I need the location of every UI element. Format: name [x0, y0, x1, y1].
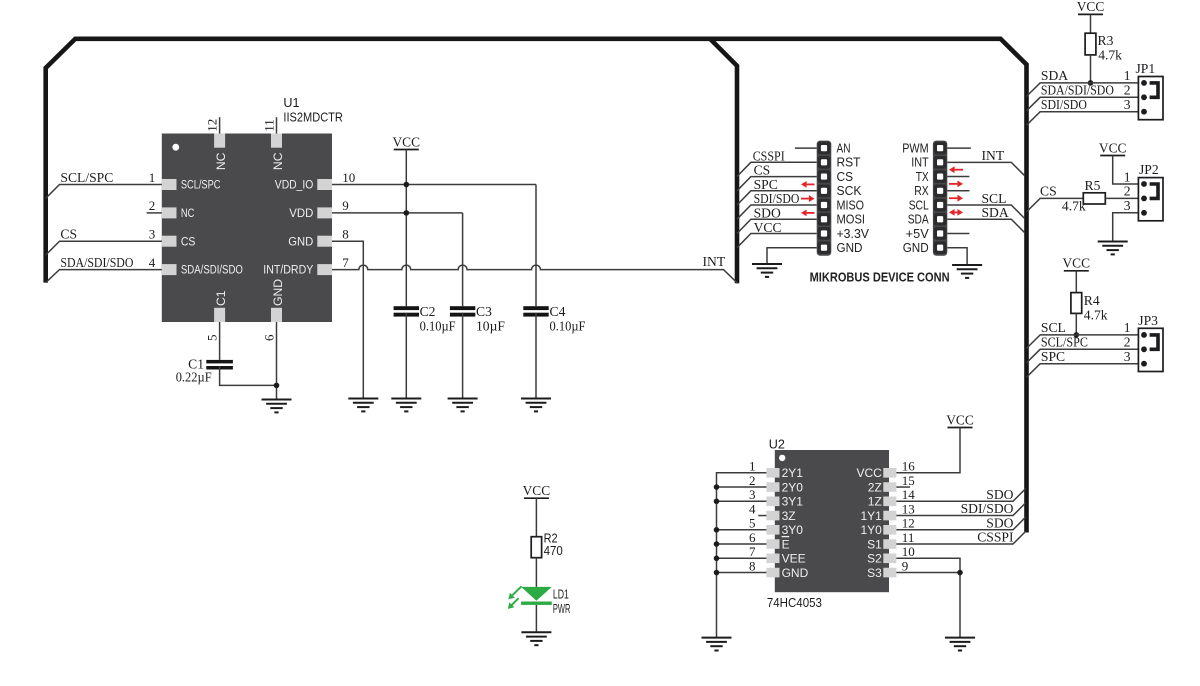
svg-text:12: 12 [204, 119, 219, 132]
wire C4 drop from VDD_IO row [535, 185, 537, 307]
svg-text:7: 7 [749, 544, 756, 559]
svg-text:9: 9 [902, 558, 909, 573]
svg-text:C1: C1 [214, 290, 228, 306]
wire U2 pin 10 (S2) [896, 558, 960, 572]
red arrow out of SCL [949, 197, 957, 199]
wire stub TX [947, 176, 969, 178]
U1 left pads pins 1-4 [162, 179, 177, 275]
junction R4/SCL [1074, 332, 1080, 338]
svg-text:R3: R3 [1098, 33, 1114, 48]
wire CS to U1 pin 3 [46, 241, 162, 255]
wire U2 pin 9 (S3) + ground drop [896, 573, 960, 637]
svg-text:CS: CS [181, 234, 196, 248]
wire stub AN [795, 147, 817, 149]
wire SDI/SDO to MISO [737, 205, 817, 219]
wire LED to ground [535, 605, 537, 632]
svg-text:NC: NC [214, 152, 228, 170]
U1 pin 8 wire (GND) [332, 241, 363, 398]
U1 pin 6 wire down [276, 322, 278, 400]
svg-text:VCC: VCC [1063, 256, 1091, 271]
LED light arrows [508, 586, 522, 609]
wire SDA/SDI/SDO to JP1 pin 2 [1027, 97, 1145, 111]
svg-text:1Y1: 1Y1 [860, 509, 882, 523]
svg-text:MOSI: MOSI [837, 213, 866, 227]
wire SPC to SCK [737, 191, 817, 205]
U1 pin-1 orientation dot [172, 144, 179, 151]
svg-text:8: 8 [749, 558, 756, 573]
wire SDO (1Y0) to bus [896, 517, 1025, 530]
junction pin 5 bus [714, 527, 720, 533]
wire SDO to MOSI [737, 219, 817, 233]
svg-text:VCC: VCC [1099, 140, 1127, 155]
svg-text:R5: R5 [1085, 178, 1101, 193]
wire left header GND to ground [767, 248, 817, 263]
ground (C4) [521, 399, 551, 412]
svg-text:CS: CS [754, 163, 771, 178]
svg-text:VCC: VCC [1077, 0, 1105, 14]
svg-text:2: 2 [149, 198, 156, 213]
wire VCC to R4 [1075, 271, 1077, 293]
svg-text:E: E [782, 537, 790, 551]
wire CS from bus to R5 [1027, 198, 1084, 212]
svg-text:CS: CS [837, 170, 854, 184]
wire SCL/SPC to JP3 pin 2 [1027, 349, 1145, 363]
LED LD1 (green) [521, 587, 552, 605]
junction S2/S3 [957, 570, 963, 576]
wire CSSPI (S1) to bus [896, 531, 1025, 544]
capacitor C4 [523, 306, 548, 310]
svg-text:1: 1 [1124, 68, 1131, 83]
svg-text:U2: U2 [769, 437, 785, 451]
svg-text:4.7k: 4.7k [1084, 308, 1108, 323]
ground (C3) [448, 399, 478, 412]
svg-text:5: 5 [204, 335, 219, 342]
wire R5 to JP2 pin 2 [1105, 197, 1144, 199]
svg-text:2: 2 [1124, 184, 1131, 199]
U1 pin 5 wire to C1 [219, 322, 221, 360]
right header pin labels [902, 142, 929, 256]
connector JP3 [1138, 328, 1163, 371]
wire VCC to JP2 pin 1 [1113, 156, 1144, 185]
svg-text:INT: INT [703, 254, 726, 269]
svg-text:3: 3 [1124, 97, 1131, 112]
svg-text:4.7k: 4.7k [1098, 48, 1122, 63]
resistor R5 [1083, 193, 1105, 204]
svg-text:C4: C4 [550, 304, 566, 319]
IC U1 IIS2MDCTR body [162, 134, 332, 323]
svg-text:CS: CS [60, 227, 77, 242]
U1 top pads pins 12,11 [214, 134, 282, 148]
U2 pin-1 orientation dot [779, 455, 785, 461]
U1 pin 2 stub wire [147, 212, 162, 214]
junction VCC rail / VDD_IO [404, 182, 410, 188]
resistor R3 [1085, 33, 1096, 55]
svg-text:9: 9 [342, 198, 349, 213]
svg-text:6: 6 [261, 334, 276, 341]
U2 right pads pins 16-9 [883, 468, 896, 577]
wire VCC to +3.3V [737, 234, 817, 248]
wire CSSPI to RST [737, 162, 817, 176]
U2 pin names left [782, 466, 809, 580]
red arrow out of MISO [801, 198, 809, 200]
svg-text:SPC: SPC [754, 177, 778, 192]
U1 right pads pins 10,9,8,7 [317, 179, 332, 275]
wire U2 pin 3 [717, 500, 767, 502]
junction pin 6 bus [714, 541, 720, 547]
svg-text:5: 5 [749, 516, 756, 531]
red double arrow SDA [955, 211, 958, 213]
wire R3 to SDA net [1090, 55, 1092, 83]
svg-text:GND: GND [271, 279, 285, 306]
wire stub PWM [947, 147, 971, 149]
junction C1/pin6 [274, 383, 280, 389]
svg-text:CSSPI: CSSPI [753, 148, 785, 163]
ground (left header) [752, 264, 782, 277]
MIKROBUS left header (AN..GND) [817, 141, 832, 256]
svg-text:4: 4 [149, 255, 156, 270]
svg-text:VCC: VCC [946, 412, 974, 427]
svg-text:SCK: SCK [837, 184, 863, 198]
U1 bottom pads pins 5,6 [214, 308, 282, 322]
svg-text:SCL/SPC: SCL/SPC [60, 170, 113, 185]
wire SCL from right header to bus [947, 205, 1025, 219]
wire right header GND to ground [947, 248, 967, 264]
svg-text:3Y0: 3Y0 [782, 523, 804, 537]
svg-text:INT/DRDY: INT/DRDY [263, 263, 313, 277]
wire C2 to ground [405, 313, 407, 399]
svg-text:2Y1: 2Y1 [782, 466, 804, 480]
svg-text:0.22µF: 0.22µF [176, 370, 212, 385]
svg-text:CSSPI: CSSPI [977, 530, 1014, 545]
svg-text:SDI/SDO: SDI/SDO [754, 191, 800, 206]
ground (JP2) [1098, 242, 1128, 255]
svg-text:12: 12 [902, 516, 915, 531]
wire U2 pin 2 [717, 486, 767, 488]
svg-text:S2: S2 [867, 552, 882, 566]
wire U2 pin 8 [717, 572, 767, 574]
VCC symbol (U2) [946, 412, 974, 427]
svg-text:GND: GND [288, 234, 313, 248]
svg-text:3: 3 [149, 227, 156, 242]
wire SDA to JP1 pin 1 [1027, 83, 1145, 97]
VCC rail wire down to C2 [405, 150, 407, 307]
svg-text:1: 1 [749, 459, 756, 474]
svg-text:INT: INT [982, 148, 1005, 163]
wire C1 to ground junction [220, 366, 277, 385]
svg-text:C3: C3 [476, 304, 492, 319]
U1 pin 11 stub wire [276, 117, 278, 133]
svg-text:VCC: VCC [856, 466, 882, 480]
wire R2 to LED [535, 558, 537, 587]
wire C3 drop from VDD row [462, 213, 464, 306]
svg-text:C2: C2 [420, 304, 436, 319]
wire U2 pin 7 [717, 557, 767, 559]
wire SDI/SDO to JP1 pin 3 [1027, 112, 1145, 126]
wire U2 pin 16 to VCC [896, 428, 960, 473]
resistor R2 [531, 537, 541, 558]
ground (U1 pin 6 / C1) [262, 400, 292, 413]
svg-text:6: 6 [749, 530, 756, 545]
svg-text:SDA/SDI/SDO: SDA/SDI/SDO [181, 263, 243, 277]
svg-text:RX: RX [914, 184, 929, 198]
svg-text:MIKROBUS DEVICE CONN: MIKROBUS DEVICE CONN [810, 270, 950, 285]
wire JP2 pin 3 to ground [1113, 213, 1144, 241]
svg-text:3: 3 [1124, 198, 1131, 213]
svg-text:13: 13 [902, 501, 915, 516]
red arrow into SCK [807, 183, 815, 185]
red arrow into TX [955, 169, 963, 171]
U2 right pin numbers 16-9 [902, 459, 916, 574]
U2 pin name E overbar [782, 536, 790, 538]
svg-text:4.7k: 4.7k [1062, 198, 1086, 213]
U2 pin names right [856, 466, 882, 580]
red arrow into MOSI [807, 212, 815, 214]
wire U2 pin 5 [717, 529, 767, 531]
wire SDA from right header to bus [947, 219, 1025, 233]
VCC symbol (LED) [523, 483, 551, 498]
svg-text:3Y1: 3Y1 [782, 495, 804, 509]
svg-text:14: 14 [902, 487, 916, 502]
wire U2 pin 1 + left ground bus [717, 473, 767, 637]
svg-text:SDI/SDO: SDI/SDO [961, 501, 1014, 516]
svg-text:SDO: SDO [986, 487, 1013, 502]
svg-text:SCL/SPC: SCL/SPC [1041, 335, 1088, 350]
wire INT from right header to bus [947, 162, 1025, 175]
svg-text:10: 10 [342, 170, 355, 185]
svg-text:16: 16 [902, 459, 916, 474]
wire U2 pin 6 [717, 543, 767, 545]
svg-text:R4: R4 [1084, 293, 1100, 308]
U1 pin 9 wire (VDD) [332, 212, 463, 214]
svg-text:0.10µF: 0.10µF [420, 319, 456, 334]
ground (C2/VCC rail) [391, 399, 421, 412]
U1 pin names right [263, 178, 313, 277]
ground (LED) [521, 632, 551, 645]
junction VCC rail / VDD [404, 210, 410, 216]
svg-text:NC: NC [271, 152, 285, 170]
U1 pin 12 stub wire [219, 117, 221, 133]
svg-text:GND: GND [837, 241, 863, 255]
svg-text:1: 1 [1124, 169, 1131, 184]
junction pin 8 bus [714, 570, 720, 576]
wire CS to CS [737, 177, 817, 191]
svg-text:SCL: SCL [1041, 320, 1066, 335]
svg-text:1: 1 [149, 170, 156, 185]
wire C4 to ground [535, 313, 537, 399]
svg-text:SDI/SDO: SDI/SDO [1041, 97, 1087, 112]
svg-text:2Z: 2Z [868, 480, 882, 494]
svg-text:SDA/SDI/SDO: SDA/SDI/SDO [60, 255, 133, 270]
svg-text:2: 2 [749, 473, 756, 488]
junction R3/SDA [1088, 80, 1094, 86]
svg-text:GND: GND [903, 241, 929, 255]
wire VCC to R3 [1090, 14, 1092, 33]
svg-text:SCL: SCL [909, 198, 929, 212]
svg-text:11: 11 [261, 119, 276, 132]
wire VCC to R2 [535, 498, 537, 537]
svg-text:MISO: MISO [837, 198, 865, 212]
svg-text:SDA: SDA [1041, 68, 1068, 83]
svg-text:GND: GND [782, 566, 809, 580]
svg-text:SDO: SDO [754, 206, 781, 221]
left header pin labels [837, 142, 870, 256]
svg-text:1: 1 [1124, 320, 1131, 335]
svg-text:+5V: +5V [906, 227, 930, 241]
svg-text:U1: U1 [283, 96, 299, 110]
svg-text:PWM: PWM [902, 142, 929, 156]
red arrow out of RX [949, 183, 957, 185]
MIKROBUS right header (PWM..GND) [933, 141, 947, 256]
connector JP1 [1138, 77, 1163, 120]
svg-text:TX: TX [916, 170, 929, 184]
wire stub U2 pin 4 [758, 515, 766, 517]
svg-text:VDD: VDD [289, 206, 313, 220]
capacitor C3 [450, 306, 475, 310]
svg-text:3: 3 [1124, 349, 1131, 364]
wire SDA/SDI/SDO to U1 pin 4 [46, 270, 162, 283]
ground (U1 pin 8) [348, 399, 378, 412]
svg-text:7: 7 [342, 255, 349, 270]
svg-text:SCL/SPC: SCL/SPC [181, 178, 221, 192]
svg-text:2: 2 [1124, 335, 1131, 350]
junction pin 2 bus [714, 484, 720, 490]
wire stub U2 pin 15 [896, 486, 910, 488]
svg-text:JP3: JP3 [1138, 313, 1158, 328]
wire SCL to JP3 pin 1 [1027, 335, 1145, 349]
svg-text:SCL: SCL [982, 191, 1007, 206]
svg-text:JP1: JP1 [1136, 61, 1156, 76]
svg-text:SDA: SDA [908, 213, 929, 227]
junction pin 7 bus [714, 556, 720, 562]
svg-text:SPC: SPC [1041, 349, 1065, 364]
U2 left pin numbers 1-8 [749, 459, 756, 574]
svg-text:4: 4 [749, 501, 756, 516]
VCC symbol (JP2) [1099, 140, 1127, 155]
IC U2 74HC4053 body [775, 450, 889, 592]
U1 pin 10 wire (VDD_IO) [332, 184, 536, 186]
svg-text:11: 11 [902, 530, 915, 545]
capacitor C1 [206, 360, 233, 364]
connector JP2 [1138, 178, 1163, 221]
svg-text:470: 470 [544, 544, 563, 558]
svg-text:VEE: VEE [782, 552, 806, 566]
svg-text:R2: R2 [544, 531, 558, 545]
VCC symbol (R3) [1077, 0, 1105, 14]
wire SCL/SPC to U1 pin 1 [46, 185, 162, 199]
wire SDO (1Z) to bus [896, 489, 1025, 502]
svg-text:IIS2MDCTR: IIS2MDCTR [283, 111, 343, 125]
U1 pin names left [181, 178, 243, 277]
svg-text:SDA: SDA [982, 205, 1009, 220]
svg-text:VCC: VCC [523, 483, 551, 498]
svg-text:AN: AN [837, 142, 851, 156]
ground (U2 left) [702, 638, 732, 651]
svg-text:SDA/SDI/SDO: SDA/SDI/SDO [1041, 83, 1114, 98]
ground (right header) [952, 265, 982, 278]
capacitor C2 [394, 306, 419, 310]
svg-text:74HC4053: 74HC4053 [767, 596, 822, 610]
svg-text:S1: S1 [867, 537, 882, 551]
svg-text:INT: INT [911, 156, 929, 170]
svg-text:SDO: SDO [986, 515, 1013, 530]
junction pin 3 bus [714, 499, 720, 505]
wire SPC to JP3 pin 3 [1027, 364, 1145, 378]
svg-text:JP2: JP2 [1139, 162, 1159, 177]
svg-text:S3: S3 [867, 566, 882, 580]
svg-text:PWR: PWR [553, 602, 571, 616]
svg-text:1Y0: 1Y0 [860, 523, 882, 537]
wire C3 to ground [462, 313, 464, 399]
svg-text:3: 3 [749, 487, 756, 502]
wire R4 to SCL net [1075, 313, 1077, 335]
svg-text:15: 15 [902, 473, 915, 488]
power bus frame (thick outline, left/top/right) [46, 39, 1027, 533]
svg-text:10µF: 10µF [476, 319, 505, 334]
ground (U2 right) [945, 638, 975, 651]
wire SDI/SDO (1Y1) to bus [896, 503, 1025, 516]
svg-text:VDD_IO: VDD_IO [275, 178, 314, 192]
wire INT from U1 pin 7 to bus (with hops) [332, 265, 738, 283]
svg-text:2Y0: 2Y0 [782, 480, 804, 494]
svg-text:LD1: LD1 [553, 588, 569, 602]
VCC symbol (R4) [1063, 256, 1091, 271]
resistor R4 [1071, 293, 1082, 314]
wire stub RX [947, 190, 969, 192]
svg-text:RST: RST [837, 156, 861, 170]
svg-text:VCC: VCC [393, 134, 421, 149]
svg-text:NC: NC [181, 206, 195, 220]
svg-text:1Z: 1Z [868, 495, 882, 509]
svg-text:VCC: VCC [754, 220, 782, 235]
svg-text:10: 10 [902, 544, 915, 559]
svg-text:8: 8 [342, 227, 349, 242]
svg-text:CS: CS [1040, 184, 1057, 199]
VCC symbol (U1 decoupling rail) [393, 134, 421, 149]
svg-text:+3.3V: +3.3V [837, 227, 870, 241]
wire stub +5V [947, 232, 969, 234]
U2 left pads pins 1-8 [766, 468, 779, 577]
svg-text:2: 2 [1124, 83, 1131, 98]
svg-text:3Z: 3Z [782, 509, 796, 523]
bus branch to MIKROBUS conn [710, 39, 737, 283]
svg-text:0.10µF: 0.10µF [550, 319, 586, 334]
